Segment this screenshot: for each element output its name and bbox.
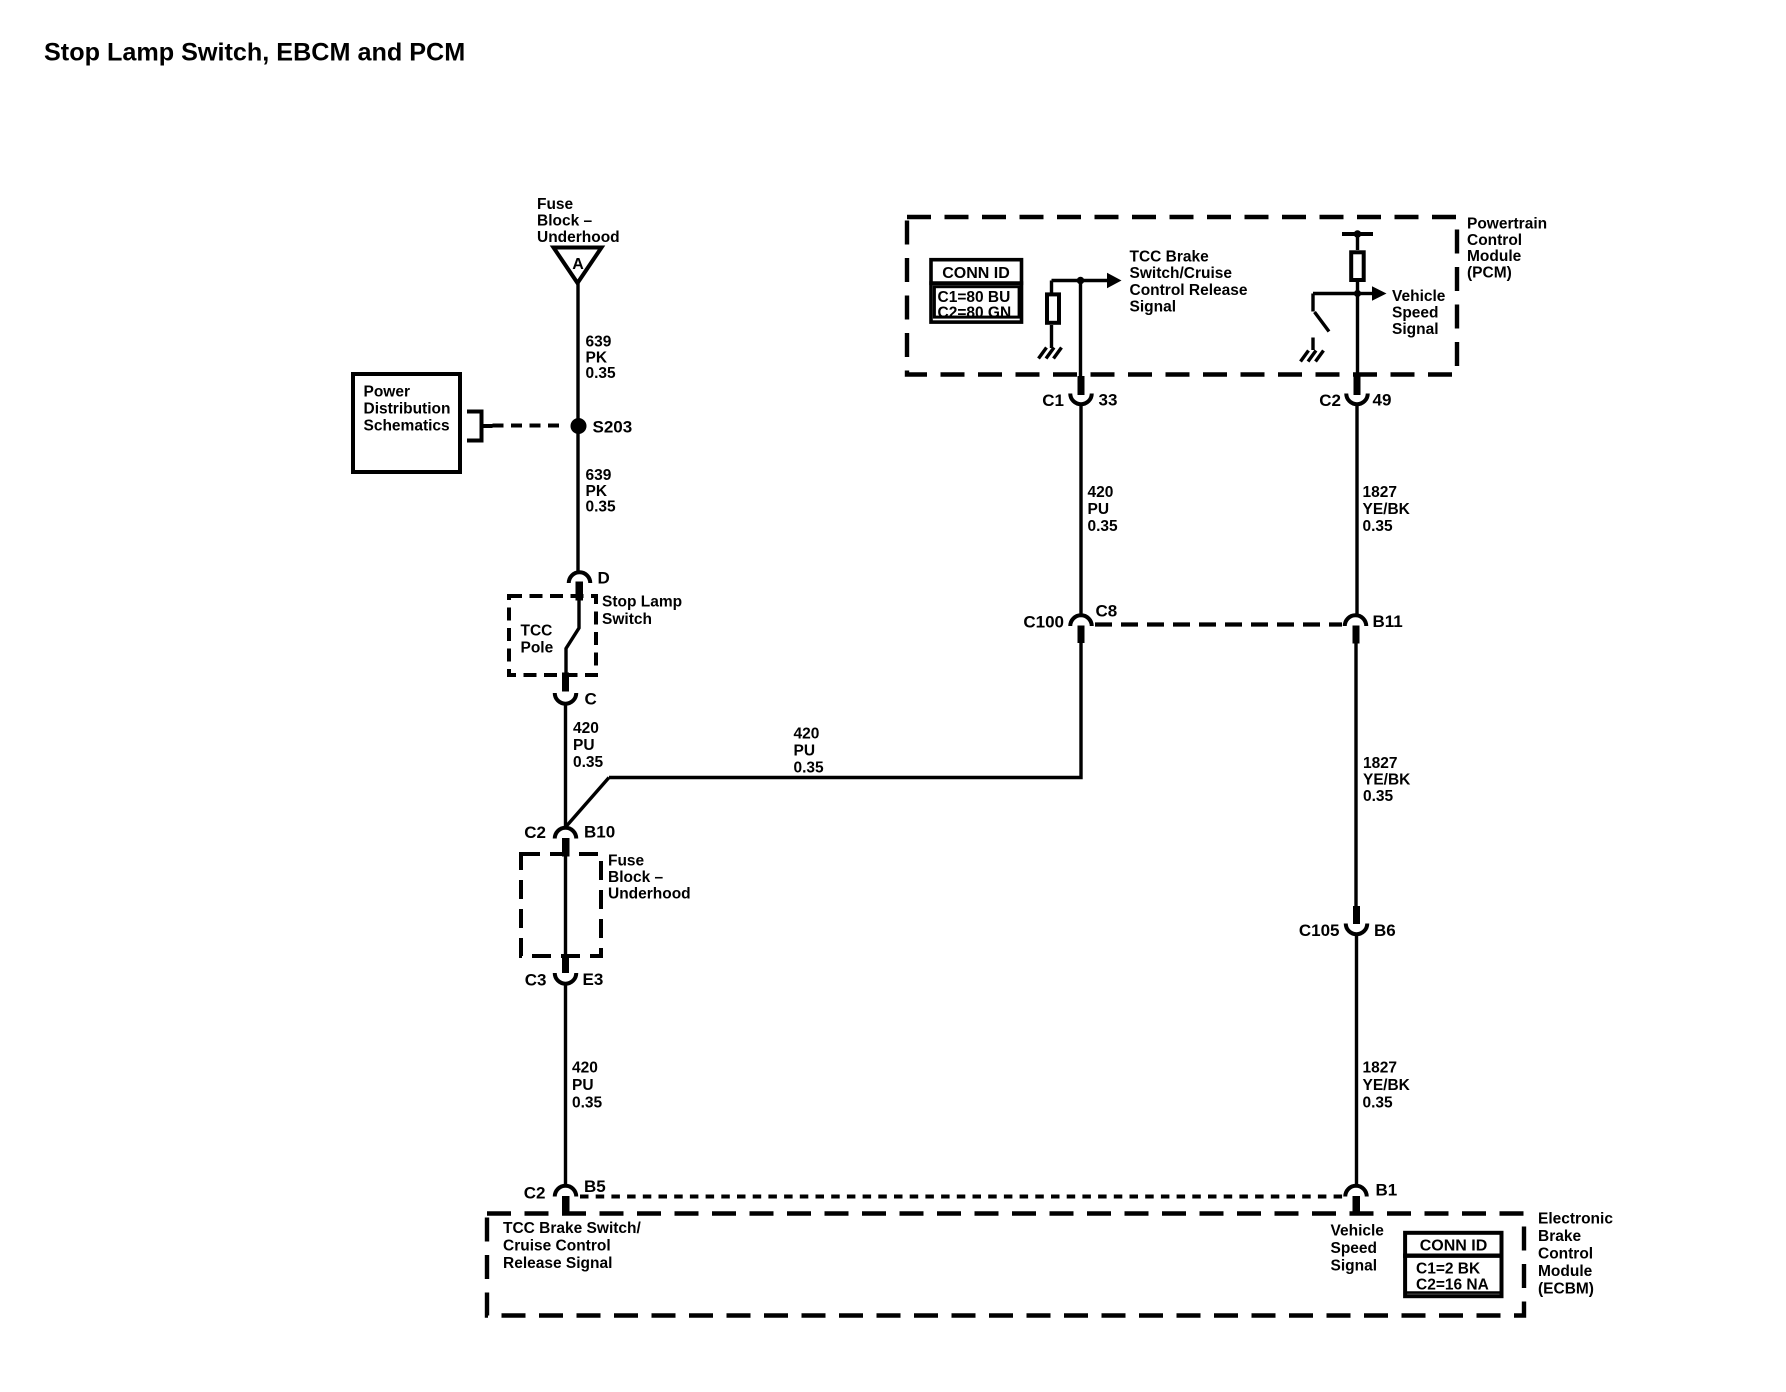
svg-text:Underhood: Underhood	[537, 229, 620, 246]
connector B6 male pin	[1353, 906, 1360, 924]
dashed wire between C8 and B11	[1095, 622, 1342, 626]
svg-text:0.35: 0.35	[1363, 518, 1394, 535]
CONN ID table (EBCM)	[1403, 1233, 1503, 1296]
svg-text:YE/BK: YE/BK	[1363, 772, 1411, 789]
svg-text:PU: PU	[1088, 501, 1110, 518]
wire 1827 YE/BK from B11 to C105 B6	[1354, 643, 1357, 907]
resistor (PCM TCC brake switch pull-up)	[1047, 294, 1059, 322]
svg-text:Release Signal: Release Signal	[503, 1255, 612, 1272]
svg-text:Vehicle: Vehicle	[1331, 1223, 1385, 1240]
Power Distribution Schematics reference box	[353, 374, 460, 472]
svg-text:PU: PU	[572, 1077, 594, 1094]
connector C8 male pin	[1078, 626, 1085, 644]
svg-text:PK: PK	[586, 349, 608, 366]
wire 420 PU from E3 down to C2 B5	[564, 985, 567, 1186]
dashed wire between B5 and B1 (inside EBCM)	[580, 1195, 1343, 1199]
svg-text:Switch/Cruise: Switch/Cruise	[1130, 265, 1233, 282]
wire resistor down through junction to pin 49	[1356, 282, 1359, 376]
svg-text:1827: 1827	[1363, 1060, 1397, 1077]
svg-text:0.35: 0.35	[1363, 788, 1394, 805]
wire label 1827 YE/BK 0.35 (lower)	[1363, 1060, 1411, 1112]
Stop Lamp Switch label	[602, 594, 682, 629]
connector B11 male pin	[1353, 626, 1360, 644]
connector C100 C8 arc	[1070, 615, 1092, 626]
signal arrow Vehicle Speed	[1358, 286, 1387, 300]
label Vehicle Speed Signal (PCM)	[1392, 288, 1446, 338]
svg-text:420: 420	[794, 726, 820, 743]
svg-text:Control: Control	[1538, 1245, 1593, 1262]
wire label 420 PU 0.35 (under C1 33)	[1088, 484, 1119, 535]
svg-text:Module: Module	[1467, 248, 1522, 265]
connector C1 33 arc	[1070, 394, 1092, 405]
svg-text:E3: E3	[583, 970, 604, 989]
wire label 420 PU 0.35 (branch)	[794, 726, 825, 777]
wire label 420 PU 0.35 (below C)	[573, 720, 604, 771]
svg-text:Signal: Signal	[1130, 299, 1177, 316]
svg-text:1827: 1827	[1363, 484, 1397, 501]
connector C2 B5 arc	[555, 1186, 577, 1197]
svg-text:B11: B11	[1373, 612, 1403, 631]
svg-text:(ECBM): (ECBM)	[1538, 1280, 1594, 1297]
internal switch (vehicle speed sensor)	[1313, 294, 1329, 351]
wire 420 PU from C down to C2 B10	[564, 704, 567, 828]
label TCC Brake Switch/Cruise Control Release Signal	[1130, 248, 1248, 315]
branch wire 420 PU horizontal run to C100 C8	[609, 643, 1081, 778]
svg-text:Control: Control	[1467, 232, 1522, 249]
svg-text:0.35: 0.35	[573, 754, 604, 771]
svg-text:TCC: TCC	[521, 623, 553, 640]
ground (PCM left)	[1039, 348, 1062, 359]
svg-text:420: 420	[572, 1060, 598, 1077]
svg-text:0.35: 0.35	[1088, 518, 1119, 535]
connector C3 E3 arc	[555, 973, 577, 984]
wire from resistor to junction (PCM left)	[1052, 281, 1081, 293]
connector B11 arc	[1345, 615, 1367, 626]
splice node S203	[571, 418, 633, 437]
connector B1 male pin	[1353, 1196, 1361, 1214]
svg-text:C1=80 BU: C1=80 BU	[938, 289, 1011, 306]
svg-text:Cruise Control: Cruise Control	[503, 1237, 611, 1254]
label Fuse Block - Underhood (middle)	[608, 853, 691, 903]
Powertrain Control Module (PCM) label	[1467, 216, 1547, 282]
stop lamp switch blade	[566, 600, 579, 673]
resistor (PCM vehicle speed pull-up)	[1351, 252, 1364, 280]
svg-text:TCC Brake Switch/: TCC Brake Switch/	[503, 1220, 642, 1237]
svg-text:Electronic: Electronic	[1538, 1210, 1613, 1227]
Electronic Brake Control Module dashed box	[487, 1214, 1524, 1316]
connector D (stop lamp switch) arc	[569, 572, 591, 583]
wire 1827 YE/BK from 49 to B11	[1355, 405, 1358, 615]
TCC Pole dashed box	[509, 596, 596, 675]
svg-text:YE/BK: YE/BK	[1363, 1077, 1411, 1094]
connector C male pin	[562, 673, 569, 692]
connector E3 male pin	[562, 955, 569, 973]
wire 1827 YE/BK from B6 to B1	[1355, 935, 1358, 1185]
wire label 1827 YE/BK 0.35 (middle)	[1363, 755, 1411, 805]
svg-text:B6: B6	[1374, 921, 1396, 940]
svg-text:TCC Brake: TCC Brake	[1130, 248, 1210, 265]
svg-text:C2=80 GN: C2=80 GN	[938, 304, 1012, 321]
svg-text:420: 420	[1088, 484, 1114, 501]
svg-text:Underhood: Underhood	[608, 886, 691, 903]
svg-text:Block –: Block –	[608, 869, 664, 886]
dashed link to splice S203	[493, 424, 566, 428]
svg-text:YE/BK: YE/BK	[1363, 501, 1411, 518]
wire label 1827 YE/BK 0.35 (upper)	[1363, 484, 1411, 535]
connector 33 male pin	[1078, 376, 1085, 395]
svg-text:639: 639	[586, 467, 612, 484]
connector C2 B10 arc	[555, 828, 577, 839]
junction node (PCM right)	[1354, 290, 1361, 297]
svg-text:420: 420	[573, 720, 599, 737]
svg-text:Signal: Signal	[1331, 1257, 1378, 1274]
junction node on top rail	[1354, 230, 1362, 238]
svg-text:C2=16 NA: C2=16 NA	[1416, 1277, 1489, 1294]
wire label 420 PU 0.35 (lower left)	[572, 1060, 603, 1112]
svg-text:C8: C8	[1096, 602, 1118, 621]
svg-text:Fuse: Fuse	[537, 196, 574, 213]
svg-text:0.35: 0.35	[572, 1094, 603, 1111]
svg-text:Fuse: Fuse	[608, 853, 645, 870]
wire 420 PU from 33 to C100 C8	[1079, 405, 1082, 615]
bracket from Power Distribution Schematics box	[467, 412, 493, 441]
Fuse Block - Underhood dashed box	[521, 854, 601, 956]
wire label 639 PK 0.35 (lower)	[586, 467, 617, 516]
svg-text:A: A	[572, 256, 584, 273]
wire resistor to ground	[1050, 325, 1053, 348]
wire label 639 PK 0.35 (upper)	[586, 334, 617, 383]
label TCC Brake Switch/Cruise Control Release Signal (EBCM)	[503, 1220, 642, 1272]
connector B1 arc	[1345, 1186, 1367, 1197]
svg-text:Stop Lamp Switch, EBCM and PCM: Stop Lamp Switch, EBCM and PCM	[44, 39, 465, 67]
signal arrow TCC Brake Switch	[1081, 273, 1122, 288]
connector B10 male pin	[562, 838, 570, 857]
svg-text:Pole: Pole	[521, 640, 554, 657]
svg-text:(PCM): (PCM)	[1467, 264, 1512, 281]
Powertrain Control Module dashed box	[907, 217, 1457, 375]
svg-text:C1=2 BK: C1=2 BK	[1416, 1261, 1481, 1278]
svg-text:0.35: 0.35	[794, 760, 825, 777]
svg-text:S203: S203	[593, 418, 633, 437]
svg-text:0.35: 0.35	[586, 499, 617, 516]
svg-text:Distribution: Distribution	[364, 401, 451, 418]
connector B5 male pin	[562, 1196, 570, 1213]
svg-text:0.35: 0.35	[1363, 1094, 1394, 1111]
connector D male pin	[576, 582, 584, 601]
svg-text:Speed: Speed	[1331, 1240, 1378, 1257]
svg-text:C2: C2	[1319, 391, 1341, 410]
wire top rail to resistor	[1356, 234, 1359, 250]
svg-text:Brake: Brake	[1538, 1228, 1581, 1245]
svg-text:Powertrain: Powertrain	[1467, 216, 1547, 233]
top rail bar (PCM right)	[1342, 232, 1373, 236]
svg-text:Module: Module	[1538, 1263, 1593, 1280]
label Vehicle Speed Signal (EBCM)	[1331, 1223, 1385, 1275]
svg-text:Control Release: Control Release	[1130, 282, 1248, 299]
CONN ID table (PCM)	[929, 260, 1023, 322]
svg-text:CONN ID: CONN ID	[1420, 1238, 1488, 1255]
svg-text:Signal: Signal	[1392, 321, 1439, 338]
svg-text:C: C	[585, 690, 597, 709]
power feed triangle A (Fuse Block - Underhood)	[554, 248, 602, 284]
svg-text:D: D	[598, 569, 610, 588]
connector C105 B6 arc	[1346, 924, 1368, 935]
svg-text:B1: B1	[1376, 1180, 1398, 1199]
svg-text:B10: B10	[584, 823, 615, 842]
svg-text:49: 49	[1373, 391, 1392, 410]
svg-text:C1: C1	[1042, 391, 1064, 410]
wire junction left to switch	[1313, 292, 1358, 295]
svg-text:0.35: 0.35	[586, 365, 617, 382]
connector C2 49 arc	[1346, 394, 1368, 405]
svg-text:PU: PU	[573, 737, 595, 754]
junction node (PCM left)	[1077, 277, 1085, 285]
svg-text:C105: C105	[1299, 921, 1340, 940]
ground (PCM right)	[1301, 351, 1324, 362]
svg-text:Switch: Switch	[602, 611, 652, 628]
svg-text:B5: B5	[584, 1177, 606, 1196]
svg-text:PU: PU	[794, 743, 816, 760]
svg-text:C2: C2	[524, 823, 546, 842]
branch wire diagonal from B10 junction	[567, 778, 610, 827]
svg-text:C3: C3	[525, 971, 547, 990]
wire junction down to pin 33	[1079, 281, 1082, 377]
wire through fuse block	[564, 857, 567, 956]
svg-text:1827: 1827	[1363, 755, 1397, 772]
svg-text:Speed: Speed	[1392, 305, 1439, 322]
label Fuse Block - Underhood (top)	[537, 196, 620, 246]
label Electronic Brake Control Module (ECBM)	[1538, 1210, 1613, 1297]
svg-text:33: 33	[1099, 391, 1118, 410]
svg-text:Schematics: Schematics	[364, 418, 450, 435]
svg-text:639: 639	[586, 334, 612, 351]
svg-text:PK: PK	[586, 483, 608, 500]
svg-text:Power: Power	[364, 384, 411, 401]
svg-text:CONN ID: CONN ID	[942, 265, 1010, 282]
svg-text:Stop Lamp: Stop Lamp	[602, 594, 682, 611]
wire 639 PK from triangle A down to connector D	[576, 283, 579, 572]
TCC Pole label	[521, 623, 554, 657]
connector 49 male pin	[1354, 376, 1361, 395]
svg-text:Block –: Block –	[537, 213, 593, 230]
svg-text:C2: C2	[524, 1184, 546, 1203]
svg-text:Vehicle: Vehicle	[1392, 288, 1446, 305]
connector C arc	[555, 693, 577, 704]
svg-text:C100: C100	[1023, 613, 1064, 632]
